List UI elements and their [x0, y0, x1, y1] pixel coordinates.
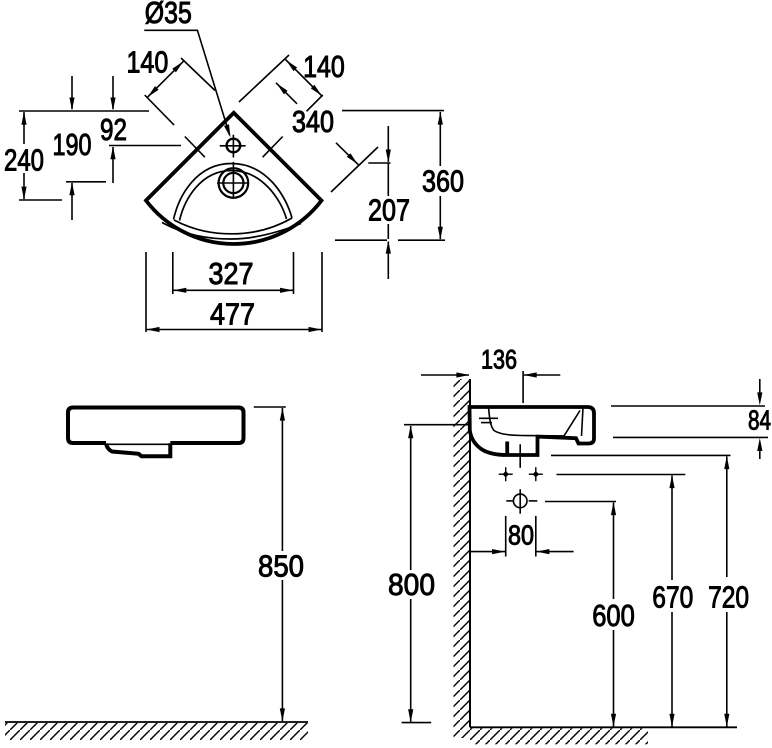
- dimension 190: [53, 76, 92, 220]
- svg-text:140: 140: [127, 45, 169, 80]
- svg-text:600: 600: [592, 598, 635, 633]
- tap hole (plan): [220, 135, 246, 158]
- label O35 with leader arrow to tap hole: [144, 0, 230, 138]
- dimension 84: [611, 379, 771, 459]
- dimension 600: [592, 502, 635, 727]
- dimension 720: [708, 456, 749, 727]
- front elevation drain tray: [106, 443, 170, 456]
- svg-text:207: 207: [368, 193, 410, 228]
- washbasin outline (plan view, corner basin): [146, 113, 322, 244]
- dimension 850: [254, 407, 304, 721]
- svg-text:Ø35: Ø35: [145, 0, 192, 30]
- drain boss left edge (side): [505, 442, 509, 456]
- svg-text:340: 340: [292, 104, 334, 139]
- plan view: apex-level extension line right (360 top tick): [342, 110, 444, 112]
- tick line for 670: [557, 474, 686, 476]
- ground hatching right: [470, 728, 648, 744]
- svg-text:360: 360: [422, 164, 464, 199]
- drain hole (plan): [217, 162, 248, 199]
- dimension 670: [652, 475, 693, 727]
- washbasin side profile outline: [470, 407, 595, 455]
- plan view: apex-level extension line left: [19, 110, 149, 112]
- fixing hole crosses: [499, 467, 543, 481]
- svg-text:190: 190: [53, 127, 92, 162]
- svg-text:92: 92: [100, 112, 127, 147]
- dimension 240: [4, 112, 44, 200]
- svg-text:670: 670: [652, 580, 693, 615]
- basin floor front edge (plan): [162, 223, 301, 240]
- drain outlet circle (side): [506, 489, 537, 514]
- wall hatching: [454, 379, 471, 738]
- svg-text:84: 84: [748, 405, 771, 436]
- svg-text:136: 136: [481, 345, 517, 375]
- dimension 92: [100, 76, 127, 183]
- dimension 340 with corner extension line: [276, 83, 378, 192]
- dimension 140 left with extension lines: [127, 45, 216, 158]
- svg-text:800: 800: [388, 567, 435, 602]
- dimension 477 with extension lines: [146, 252, 322, 332]
- bowl inner rim (plan): [180, 171, 287, 221]
- front elevation outline: [68, 408, 244, 444]
- svg-text:477: 477: [210, 297, 255, 332]
- ground line left: [5, 721, 308, 723]
- tick line for 600: [545, 501, 616, 503]
- svg-text:720: 720: [708, 580, 749, 615]
- ground line right: [470, 726, 737, 728]
- shared bottom tick for 207/360: [335, 239, 387, 241]
- svg-text:80: 80: [508, 520, 534, 551]
- front elevation bottom thin line: [107, 443, 170, 445]
- dimension 360: [422, 112, 464, 240]
- dimension 140 right with extension lines: [239, 49, 345, 157]
- bowl outer rim (plan): [174, 164, 293, 220]
- dimension 207: [368, 126, 410, 279]
- dimension 327 with extension lines: [173, 252, 294, 294]
- svg-text:240: 240: [4, 143, 44, 178]
- dimension 80: [470, 516, 574, 557]
- dimension 136: [421, 345, 560, 404]
- svg-text:140: 140: [303, 49, 345, 84]
- tick line for 720: [551, 454, 731, 456]
- dimension 800: [388, 425, 470, 723]
- plan view: drain level extension line (190): [66, 181, 106, 183]
- side profile: front inner edge: [582, 408, 584, 437]
- plan view: 240 bottom extension line: [19, 199, 62, 201]
- bowl bottom edge (plan): [174, 218, 292, 234]
- drain boss axis line: [519, 444, 521, 468]
- wall line: [469, 379, 471, 727]
- side profile: tap hole dashes: [479, 418, 498, 422]
- svg-text:850: 850: [258, 549, 304, 584]
- ground hatching left: [5, 723, 308, 740]
- plan view: tap-hole level extension line (92): [109, 145, 181, 147]
- side profile: bowl section line: [489, 408, 581, 436]
- svg-text:327: 327: [209, 256, 254, 291]
